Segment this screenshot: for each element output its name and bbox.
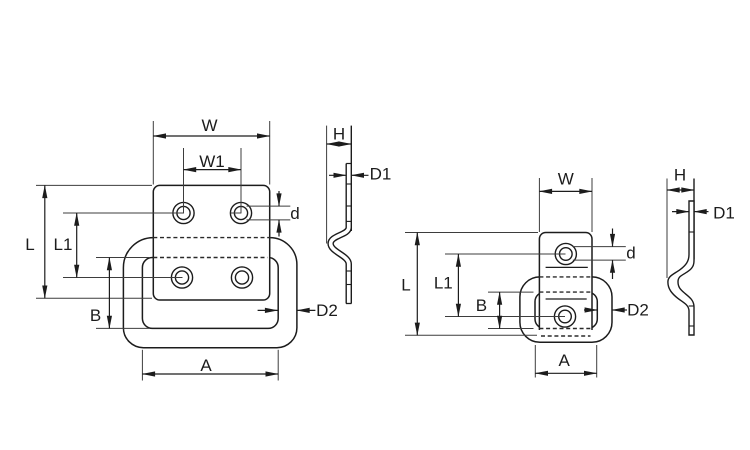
extension line L1 bottom row	[445, 316, 558, 318]
svg-text:L: L	[25, 235, 34, 254]
strip top edge	[346, 163, 351, 165]
svg-text:d: d	[290, 204, 299, 223]
centerline through top hole row	[170, 212, 184, 214]
svg-text:H: H	[333, 125, 345, 144]
dimension B	[90, 258, 110, 329]
extension line B top	[96, 257, 150, 259]
hole bottom-right	[231, 267, 252, 288]
hidden ring inner top edge (dashed)	[539, 291, 592, 293]
svg-text:A: A	[559, 351, 571, 370]
extension line L1 top row	[63, 212, 172, 214]
extension line L1 top row	[445, 253, 559, 255]
hidden ring outer top edge (dashed)	[539, 276, 592, 278]
extension line B bottom	[96, 327, 150, 329]
svg-text:D1: D1	[370, 165, 392, 184]
dimension d right	[573, 229, 636, 280]
extension line L bottom	[36, 297, 152, 299]
dimension d	[247, 191, 300, 237]
strip tick marks right	[689, 232, 695, 326]
dimension W	[153, 116, 269, 185]
dimension H	[327, 125, 352, 145]
svg-text:D1: D1	[713, 204, 735, 223]
hole top-right	[230, 202, 251, 223]
strip tick marks	[346, 184, 352, 285]
hidden plate tab bottom edge (dashed)	[541, 335, 591, 337]
bent strip profile right	[668, 201, 694, 335]
svg-text:W: W	[558, 170, 574, 189]
extension line B top	[488, 291, 534, 293]
dimension H right	[667, 166, 694, 190]
ring outer outline	[520, 277, 612, 342]
dimension A	[142, 350, 278, 381]
svg-text:W1: W1	[199, 152, 225, 171]
ring inner outline	[142, 258, 278, 329]
svg-text:D2: D2	[316, 301, 338, 320]
hole bottom-left	[171, 267, 192, 288]
svg-text:W: W	[201, 116, 217, 135]
whiteout of ring tops behind plate	[153, 238, 271, 258]
hidden ring inner top edge (dashed)	[153, 257, 267, 259]
H left extension line	[326, 126, 328, 244]
extension line L top	[405, 232, 538, 234]
dimension A right	[535, 345, 596, 378]
svg-text:L1: L1	[434, 273, 453, 292]
centerline tick in top-right hole	[231, 212, 242, 214]
svg-text:L1: L1	[54, 235, 73, 254]
svg-text:D2: D2	[627, 301, 649, 320]
svg-text:H: H	[674, 166, 686, 185]
ring outer outline	[123, 238, 297, 348]
whiteout ring parts behind plate	[539, 277, 592, 329]
side profile back line / H extension right	[693, 179, 695, 260]
extension line B bottom	[488, 328, 534, 330]
svg-text:B: B	[476, 296, 487, 315]
centerline through bottom hole row	[168, 277, 183, 279]
centerline into top hole right	[552, 253, 566, 255]
svg-text:B: B	[90, 306, 101, 325]
hole bottom	[554, 306, 575, 327]
H left extension line right	[666, 179, 668, 279]
hole top-left	[173, 202, 194, 223]
dimension L right	[401, 233, 417, 336]
tab fold line below top hole	[546, 266, 588, 268]
hidden ring outer top edge (dashed)	[153, 237, 269, 239]
svg-text:L: L	[401, 276, 410, 295]
hole top	[555, 243, 576, 264]
centerline into bottom hole right	[551, 316, 565, 318]
centerline into top-right hole	[240, 200, 242, 213]
dimension B right	[476, 292, 500, 328]
ring inner outline	[535, 292, 597, 328]
dimension L	[25, 185, 45, 298]
dimension D2	[258, 301, 338, 320]
dimension W right	[539, 170, 592, 233]
bent strip profile	[331, 164, 349, 304]
extension line L1 bottom row	[63, 277, 172, 279]
extension line L top	[36, 184, 152, 186]
dimension D1	[329, 165, 391, 184]
svg-text:d: d	[626, 244, 635, 263]
extension line L bottom	[405, 334, 537, 336]
strip bottom edge	[346, 303, 352, 305]
centerline into top-left hole	[183, 200, 185, 213]
svg-text:A: A	[200, 356, 212, 375]
mounting plate	[539, 233, 592, 331]
dimension D2 right	[584, 301, 649, 320]
mounting plate	[153, 185, 269, 300]
dimension D1 right	[672, 204, 735, 223]
dimension L1	[54, 213, 77, 278]
side profile back line / H extension	[350, 126, 352, 231]
tab fold line above bottom hole	[546, 298, 587, 300]
dimension L1 right	[434, 254, 459, 317]
dimension W1	[184, 148, 242, 213]
hidden ring inner bottom edge (dashed)	[539, 328, 592, 330]
